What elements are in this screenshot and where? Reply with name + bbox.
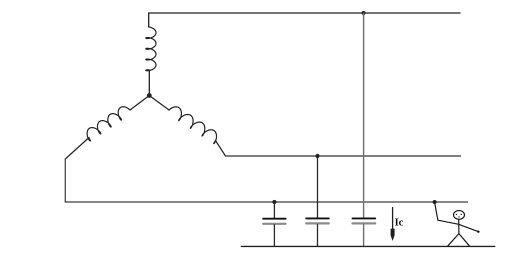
wire bottom phase bus (faulted line touched by person) [65, 201, 467, 203]
person head [454, 211, 465, 220]
person right leg [459, 234, 469, 246]
person body [458, 219, 460, 233]
wire bottom bus down to capacitor C1 [273, 202, 275, 219]
wire from top bus corner down to winding W1 [148, 13, 150, 27]
wire top bus down to capacitor C3 [363, 13, 365, 218]
person eyes [456, 214, 457, 215]
current arrow Ic [391, 208, 395, 242]
node star point (neutral) [147, 93, 152, 98]
person left leg [448, 234, 459, 246]
winding W1 (top phase winding) [146, 27, 156, 71]
junction dot on middle bus [315, 154, 319, 158]
wire left vertical drop [64, 159, 66, 202]
wire middle phase bus [226, 155, 461, 157]
person touching the faulted line [435, 203, 480, 246]
wire middle bus down to capacitor C2 [317, 156, 319, 218]
wire winding W3 to middle bus [216, 141, 226, 157]
person mouth [458, 216, 460, 218]
wire star point to winding W3 [149, 96, 169, 111]
junction dot contact point on bottom bus [433, 200, 437, 204]
svg-text:Ic: Ic [395, 218, 404, 229]
person forearm to shoulder [438, 220, 458, 224]
winding W3 (right phase winding) [169, 107, 217, 144]
wire top phase bus (L1 line) [149, 12, 460, 14]
junction dot on top bus [362, 11, 366, 15]
wire winding W2 to left corner [65, 138, 89, 160]
person upper arm from contact point [435, 203, 438, 221]
capacitor C2 (earth capacitance, middle) [306, 218, 329, 246]
wire star point to winding W2 [130, 96, 149, 111]
person right arm [459, 224, 479, 231]
ground (earth line) [241, 245, 494, 247]
winding W2 (left phase winding) [87, 107, 130, 141]
junction dot on bottom bus [272, 200, 276, 204]
capacitor C3 (earth capacitance, right) [353, 218, 376, 246]
capacitor C1 (earth capacitance, left) [263, 219, 285, 247]
wire winding W1 to star point [148, 70, 150, 96]
